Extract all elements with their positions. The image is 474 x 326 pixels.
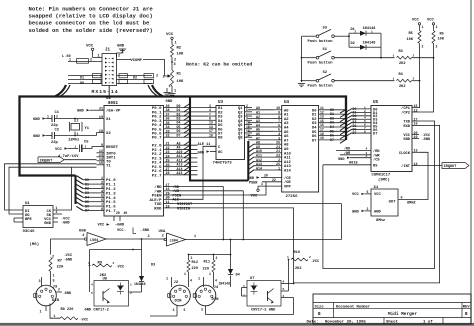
svg-text:C5: C5 — [84, 141, 89, 145]
svg-text:4: 4 — [101, 190, 103, 194]
svg-text:8MHZ: 8MHZ — [407, 201, 416, 205]
svg-text:1: 1 — [174, 90, 176, 94]
svg-text:1: 1 — [47, 114, 49, 118]
svg-text:5: 5 — [367, 190, 369, 194]
svg-text:1: 1 — [371, 30, 373, 33]
svg-text:2: 2 — [413, 54, 415, 57]
svg-text:1N4148: 1N4148 — [363, 27, 376, 31]
svg-text:/OE: /OE — [284, 180, 292, 185]
svg-text:A14: A14 — [284, 170, 292, 174]
svg-text:/RD: /RD — [344, 147, 350, 152]
svg-text:GND: GND — [33, 135, 41, 139]
svg-text:GND: GND — [248, 177, 255, 181]
svg-text:20: 20 — [116, 211, 120, 215]
svg-text:ALE/P: ALE/P — [149, 198, 162, 203]
svg-text:L.S0: L.S0 — [62, 55, 71, 59]
svg-text:1: 1 — [184, 272, 186, 276]
svg-text:22p: 22p — [51, 141, 59, 145]
svg-text:5: 5 — [53, 279, 55, 283]
svg-text:VCC: VCC — [427, 18, 435, 22]
svg-text:(MS): (MS) — [30, 242, 40, 247]
svg-text:U1: U1 — [25, 202, 30, 206]
svg-text:10K: 10K — [177, 53, 185, 57]
svg-text:GND: GND — [77, 110, 85, 114]
svg-text:R5: R5 — [409, 32, 413, 36]
svg-text:D5: D5 — [85, 200, 89, 204]
svg-text:D3: D3 — [85, 191, 89, 195]
svg-text:OUT: OUT — [389, 200, 397, 204]
svg-text:2: 2 — [309, 256, 311, 259]
svg-text:Push button: Push button — [308, 60, 334, 65]
svg-text:VCC: VCC — [98, 223, 106, 227]
svg-text:GND: GND — [403, 138, 410, 142]
svg-text:VCOMP: VCOMP — [131, 59, 143, 63]
svg-text:D1: D1 — [80, 76, 84, 80]
svg-text:6: 6 — [101, 199, 103, 203]
svg-text:(SMC): (SMC) — [378, 177, 390, 182]
svg-text:D7: D7 — [373, 132, 377, 136]
svg-text:←GND: ←GND — [141, 229, 150, 233]
svg-text:D4: D4 — [85, 196, 89, 200]
svg-text:1: 1 — [77, 132, 79, 136]
svg-text:8Mhz: 8Mhz — [376, 218, 385, 223]
svg-text:2: 2 — [216, 256, 218, 260]
svg-text:12: 12 — [414, 109, 418, 113]
svg-text:19: 19 — [320, 136, 324, 140]
svg-text:VCC: VCC — [166, 33, 174, 37]
svg-text:J1: J1 — [105, 49, 111, 53]
svg-text:8: 8 — [101, 208, 103, 212]
svg-text:/RD: /RD — [173, 185, 180, 190]
svg-text:P0.7: P0.7 — [152, 137, 162, 141]
svg-text:Push button: Push button — [308, 39, 334, 44]
svg-text:RXD: RXD — [154, 207, 162, 211]
svg-text:ALE 11: ALE 11 — [198, 143, 211, 147]
svg-text:4: 4 — [190, 278, 192, 282]
svg-text:3: 3 — [148, 235, 150, 239]
svg-text:D2: D2 — [133, 76, 137, 80]
svg-text:2: 2 — [367, 207, 369, 211]
svg-text:LS04: LS04 — [170, 240, 178, 244]
svg-text:GND: GND — [338, 158, 345, 162]
svg-text:swapped (relative to LCD displ: swapped (relative to LCD display doc) — [29, 13, 153, 20]
svg-text:CNY17-2 GND: CNY17-2 GND — [251, 309, 276, 313]
svg-text:10K: 10K — [177, 80, 185, 84]
svg-text:DIN: DIN — [175, 300, 183, 304]
svg-text:P1.4: P1.4 — [106, 197, 116, 201]
svg-text:S1: S1 — [323, 48, 328, 52]
svg-text:/CP1: /CP1 — [401, 106, 411, 111]
svg-text:1N4148: 1N4148 — [134, 282, 146, 286]
svg-text:2K2: 2K2 — [295, 267, 301, 271]
svg-text:/WR: /WR — [373, 153, 380, 158]
svg-text:10K: 10K — [438, 37, 445, 41]
svg-text:VPP: VPP — [284, 185, 292, 189]
svg-text:Y1: Y1 — [85, 127, 90, 131]
svg-text:8: 8 — [364, 130, 366, 133]
svg-text:1: 1 — [261, 182, 263, 186]
svg-text:1: 1 — [40, 310, 42, 314]
svg-text:J4: J4 — [214, 286, 219, 290]
svg-text:U3: U3 — [218, 101, 224, 105]
svg-text:/CE: /CE — [284, 176, 292, 181]
svg-text:2: 2 — [163, 76, 165, 80]
svg-text:Sheet: Sheet — [386, 319, 399, 324]
svg-text:15: 15 — [414, 105, 418, 109]
svg-text:→GND: →GND — [63, 292, 72, 296]
svg-text:MIDIIN: MIDIIN — [177, 207, 190, 211]
svg-text:7: 7 — [101, 204, 103, 208]
svg-text:VCC: VCC — [251, 195, 259, 199]
svg-text:2: 2 — [90, 59, 92, 63]
svg-text:P1.5: P1.5 — [106, 201, 116, 205]
svg-text:VCC: VCC — [55, 148, 63, 152]
svg-text:VCC: VCC — [86, 44, 94, 48]
svg-text:/RD: /RD — [154, 185, 162, 190]
svg-text:3: 3 — [174, 63, 176, 67]
svg-text:1: 1 — [53, 274, 55, 278]
svg-text:2: 2 — [436, 45, 438, 49]
svg-text:GND CNY17-2: GND CNY17-2 — [85, 309, 109, 313]
svg-text:31: 31 — [99, 108, 103, 112]
svg-text:→GND: →GND — [115, 223, 125, 227]
svg-text:10: 10 — [166, 205, 170, 209]
svg-text:10K: 10K — [407, 38, 414, 42]
svg-text:U5: U5 — [373, 101, 379, 105]
svg-text:P1.2: P1.2 — [106, 188, 116, 192]
svg-text:S2: S2 — [323, 71, 328, 75]
svg-text:VCC: VCC — [412, 18, 420, 22]
svg-text:R6: R6 — [440, 32, 444, 36]
svg-text:1: 1 — [75, 146, 77, 149]
svg-text:Note: K2 can be omitted: Note: K2 can be omitted — [186, 62, 252, 68]
svg-text:1 of: 1 of — [423, 319, 433, 324]
svg-text:/RD: /RD — [373, 149, 380, 154]
svg-text:6: 6 — [283, 281, 285, 284]
svg-text:VCC: VCC — [352, 193, 360, 197]
svg-text:X2: X2 — [106, 132, 111, 136]
svg-text:U2: U2 — [106, 97, 112, 101]
svg-text:C2: C2 — [55, 129, 60, 133]
svg-text:P1.6: P1.6 — [106, 206, 116, 210]
svg-text:1: 1 — [54, 314, 56, 318]
svg-text:RESET: RESET — [106, 146, 119, 150]
svg-text:OC: OC — [218, 151, 223, 155]
svg-text:CLOCK: CLOCK — [399, 152, 411, 156]
svg-text:D7: D7 — [177, 133, 181, 137]
svg-text:4: 4 — [82, 234, 84, 238]
svg-text:14: 14 — [414, 163, 418, 167]
svg-text:1: 1 — [98, 55, 100, 59]
svg-text:Note: Pin numbers on Connector: Note: Pin numbers on Connector J1 are — [29, 6, 154, 13]
svg-text:2: 2 — [413, 77, 415, 80]
svg-text:IRQOUT: IRQOUT — [444, 165, 458, 169]
svg-text:220: 220 — [57, 265, 65, 269]
svg-text:1: 1 — [209, 272, 211, 276]
svg-text:DIN: DIN — [212, 298, 220, 302]
svg-text:GND: GND — [44, 222, 52, 226]
svg-text:R8 220: R8 220 — [61, 308, 74, 312]
svg-text:1N4148: 1N4148 — [219, 282, 231, 286]
svg-text:12Mhz: 12Mhz — [68, 138, 79, 143]
svg-text:because connector on the lcd m: because connector on the lcd must be — [29, 20, 150, 27]
svg-text:COM81C17: COM81C17 — [372, 174, 391, 178]
svg-text:S3: S3 — [323, 27, 328, 31]
svg-text:1: 1 — [194, 235, 196, 239]
svg-text:32: 32 — [166, 135, 170, 139]
svg-text:DIN: DIN — [52, 299, 60, 303]
svg-text:27256: 27256 — [286, 195, 299, 199]
svg-text:D0: D0 — [85, 178, 89, 182]
svg-text:T1: T1 — [106, 164, 111, 168]
svg-text:D7: D7 — [85, 209, 89, 213]
svg-text:D6: D6 — [85, 204, 89, 208]
svg-text:40: 40 — [124, 211, 128, 215]
svg-text:5: 5 — [91, 292, 93, 295]
svg-text:4: 4 — [366, 148, 368, 151]
svg-text:D1: D1 — [85, 182, 89, 186]
svg-text:U8: U8 — [103, 278, 108, 282]
svg-text:R11: R11 — [204, 260, 210, 264]
svg-text:X1: X1 — [374, 186, 379, 190]
svg-text:RS: RS — [373, 164, 378, 168]
svg-text:Size: Size — [315, 304, 325, 309]
svg-text:GND: GND — [198, 151, 205, 155]
svg-text:Document Number: Document Number — [336, 304, 370, 309]
svg-text:Q8: Q8 — [238, 137, 243, 141]
svg-text:→VCC: →VCC — [116, 265, 125, 269]
svg-text:REV: REV — [463, 305, 471, 309]
svg-text:5: 5 — [283, 288, 285, 291]
svg-text:1: 1 — [422, 25, 424, 29]
svg-text:9: 9 — [101, 144, 103, 148]
svg-text:A15: A15 — [177, 171, 183, 175]
svg-text:A14: A14 — [256, 166, 262, 170]
svg-text:P1.3: P1.3 — [106, 192, 116, 196]
svg-text:1: 1 — [393, 54, 395, 57]
svg-text:2: 2 — [77, 119, 79, 123]
svg-text:2: 2 — [355, 30, 357, 33]
svg-text:220: 220 — [192, 267, 198, 271]
svg-text:LS04: LS04 — [90, 239, 98, 243]
svg-text:2: 2 — [56, 114, 58, 118]
svg-text:22: 22 — [272, 178, 276, 182]
svg-text:VCC→: VCC→ — [117, 229, 126, 233]
svg-text:3: 3 — [85, 146, 87, 149]
svg-text:2: 2 — [113, 262, 115, 265]
svg-text:5: 5 — [184, 308, 186, 312]
svg-text:19: 19 — [99, 116, 103, 120]
svg-text:1: 1 — [169, 85, 171, 89]
svg-text:2K2: 2K2 — [399, 85, 405, 89]
svg-text:November 20, 1995: November 20, 1995 — [325, 319, 366, 324]
svg-text:P1.7: P1.7 — [106, 210, 116, 214]
svg-text:3: 3 — [201, 307, 203, 311]
svg-text:2: 2 — [56, 210, 58, 214]
svg-text:D3: D3 — [151, 264, 155, 268]
svg-text:2: 2 — [101, 182, 103, 186]
svg-text:15: 15 — [99, 162, 103, 166]
svg-text:→VCC: →VCC — [311, 260, 320, 264]
svg-text:P1.0: P1.0 — [106, 179, 116, 183]
svg-text:2: 2 — [58, 287, 60, 291]
svg-text:20: 20 — [264, 174, 268, 178]
svg-text:1: 1 — [130, 284, 132, 287]
svg-text:/WR: /WR — [344, 151, 351, 156]
svg-text:→GND: →GND — [61, 222, 70, 226]
svg-text:→VCC: →VCC — [80, 319, 89, 323]
svg-text:U7: U7 — [250, 277, 255, 281]
svg-text:D7: D7 — [312, 139, 317, 143]
svg-text:4.7uF/16V: 4.7uF/16V — [58, 154, 79, 159]
svg-text:13: 13 — [414, 150, 418, 154]
svg-text:8051: 8051 — [108, 102, 119, 106]
svg-text:1: 1 — [436, 25, 438, 29]
svg-text:220: 220 — [203, 267, 209, 271]
svg-text:18: 18 — [209, 133, 213, 137]
svg-text:J2: J2 — [174, 281, 179, 285]
svg-text:R9: R9 — [98, 261, 103, 265]
svg-text:2: 2 — [422, 45, 424, 49]
svg-text:VCC: VCC — [374, 193, 382, 197]
svg-text:Push button: Push button — [308, 83, 334, 88]
svg-text:1: 1 — [101, 177, 103, 181]
svg-text:1: 1 — [166, 278, 168, 282]
svg-text:6: 6 — [401, 197, 403, 201]
svg-text:D8: D8 — [218, 137, 223, 141]
svg-text:2K2: 2K2 — [399, 62, 405, 66]
svg-text:/CS: /CS — [373, 158, 380, 163]
svg-text:2: 2 — [130, 292, 132, 295]
svg-text:R1: R1 — [177, 73, 182, 77]
svg-text:P1.1: P1.1 — [106, 184, 116, 188]
svg-text:10: 10 — [414, 136, 418, 140]
svg-text:→GND: →GND — [422, 138, 431, 142]
svg-text:18: 18 — [99, 130, 103, 134]
svg-text:/CP2: /CP2 — [401, 111, 410, 116]
svg-text:D7: D7 — [330, 138, 334, 142]
svg-text:74HCT573: 74HCT573 — [213, 161, 233, 165]
svg-text:4: 4 — [91, 284, 93, 287]
svg-text:U4: U4 — [284, 101, 290, 105]
svg-text:4: 4 — [215, 278, 217, 282]
svg-text:X1: X1 — [106, 118, 111, 122]
svg-text:BPE: BPE — [25, 218, 33, 222]
svg-text:17: 17 — [414, 118, 418, 122]
svg-text:GND: GND — [117, 44, 125, 48]
svg-text:1: 1 — [175, 42, 177, 46]
svg-text:R3: R3 — [399, 50, 403, 54]
svg-text:D2: D2 — [85, 187, 89, 191]
svg-text:22p: 22p — [51, 124, 59, 128]
svg-text:solded on the solder side (rev: solded on the solder side (reversed?) — [29, 27, 153, 34]
svg-text:GND: GND — [352, 210, 360, 214]
svg-text:R7: R7 — [58, 259, 63, 263]
svg-text:Date:: Date: — [307, 320, 319, 324]
svg-text:D2: D2 — [351, 42, 355, 46]
svg-text:→GND: →GND — [64, 258, 73, 262]
svg-text:1: 1 — [393, 77, 395, 80]
svg-text:3: 3 — [101, 186, 103, 190]
svg-text:2: 2 — [156, 75, 158, 79]
svg-text:2: 2 — [191, 256, 193, 260]
svg-text:GND: GND — [33, 118, 41, 122]
svg-text:P2.7: P2.7 — [152, 174, 162, 178]
svg-text:MX15-14: MX15-14 — [92, 89, 119, 95]
svg-text:/INT: /INT — [401, 164, 411, 169]
svg-text:R10: R10 — [294, 251, 300, 255]
svg-text:1: 1 — [198, 278, 200, 282]
svg-text:2: 2 — [366, 155, 368, 158]
svg-text:TXD: TXD — [403, 121, 410, 125]
svg-text:3: 3 — [39, 280, 41, 284]
svg-text:16: 16 — [414, 123, 418, 127]
svg-text:GND: GND — [166, 100, 174, 104]
svg-text:GND: GND — [374, 210, 382, 214]
svg-text:2: 2 — [162, 234, 164, 238]
svg-text:R12: R12 — [192, 261, 198, 265]
svg-text:5: 5 — [101, 195, 103, 199]
svg-text:1: 1 — [278, 166, 280, 170]
svg-text:Midi Merger: Midi Merger — [388, 312, 417, 317]
svg-text:2: 2 — [118, 55, 120, 59]
svg-text:PSEN: PSEN — [249, 181, 257, 185]
svg-text:/EA-VP: /EA-VP — [106, 109, 121, 114]
svg-text:D0: D0 — [80, 82, 84, 86]
svg-text:RXD: RXD — [403, 125, 410, 129]
svg-text:A015: A015 — [349, 162, 358, 166]
svg-text:IRQOUT: IRQOUT — [40, 159, 54, 163]
svg-text:1N4148: 1N4148 — [363, 41, 376, 45]
svg-text:3: 3 — [173, 308, 175, 312]
svg-text:28: 28 — [166, 172, 170, 176]
svg-text:R2: R2 — [177, 47, 182, 51]
svg-text:→VCC: →VCC — [64, 254, 73, 258]
svg-text:93C46: 93C46 — [23, 230, 36, 234]
